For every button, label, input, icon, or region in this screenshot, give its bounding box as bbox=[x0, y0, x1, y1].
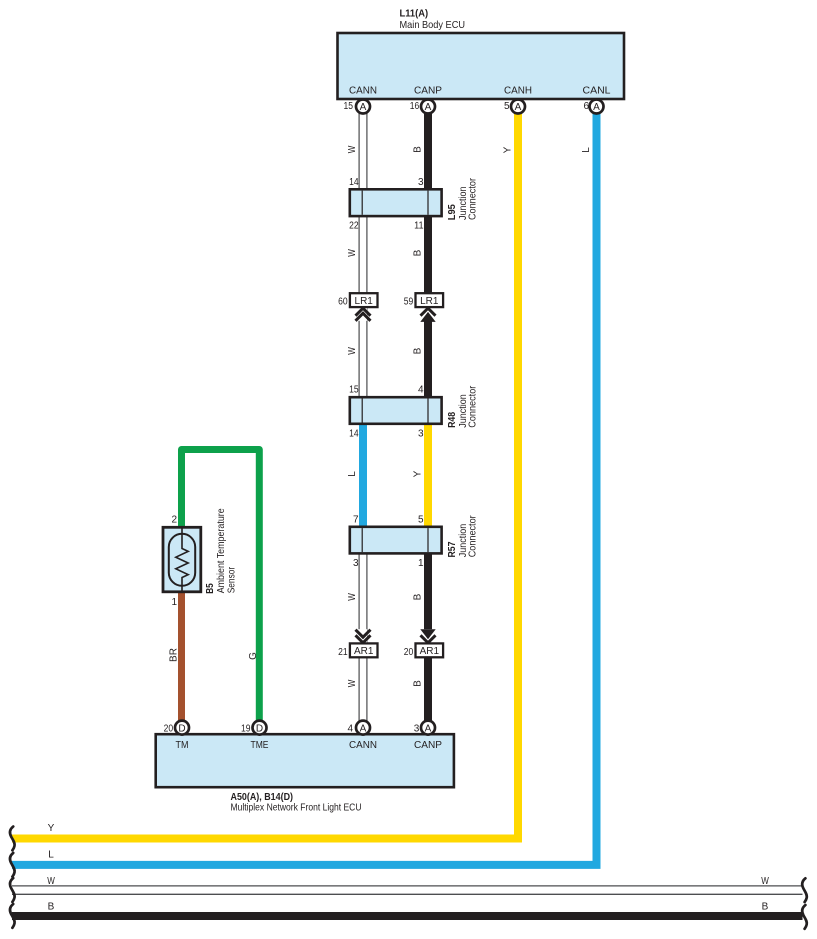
svg-text:Y: Y bbox=[413, 470, 424, 477]
svg-text:W: W bbox=[347, 679, 358, 687]
svg-text:20: 20 bbox=[164, 723, 174, 734]
svg-text:60: 60 bbox=[338, 297, 348, 308]
svg-text:20: 20 bbox=[404, 647, 414, 658]
svg-text:21: 21 bbox=[338, 647, 348, 658]
svg-text:W: W bbox=[347, 249, 358, 257]
svg-text:A: A bbox=[425, 102, 432, 113]
svg-text:L: L bbox=[347, 471, 358, 477]
svg-text:AR1: AR1 bbox=[420, 646, 440, 657]
svg-text:1: 1 bbox=[171, 597, 177, 608]
svg-text:A: A bbox=[360, 102, 367, 113]
svg-text:Connector: Connector bbox=[467, 515, 479, 557]
svg-text:A: A bbox=[515, 102, 522, 113]
svg-text:4: 4 bbox=[347, 723, 353, 734]
svg-text:3: 3 bbox=[418, 177, 424, 188]
svg-text:Y: Y bbox=[503, 146, 514, 153]
svg-text:3: 3 bbox=[353, 558, 359, 569]
svg-text:15: 15 bbox=[344, 101, 354, 112]
svg-text:4: 4 bbox=[418, 385, 424, 396]
svg-text:B: B bbox=[413, 146, 424, 153]
svg-text:14: 14 bbox=[349, 428, 359, 439]
svg-text:W: W bbox=[347, 347, 358, 355]
svg-text:2: 2 bbox=[171, 515, 177, 526]
svg-text:W: W bbox=[347, 593, 358, 601]
svg-text:3: 3 bbox=[418, 428, 424, 439]
svg-text:LR1: LR1 bbox=[355, 296, 374, 307]
svg-text:CANN: CANN bbox=[349, 739, 377, 751]
svg-text:LR1: LR1 bbox=[420, 296, 439, 307]
svg-text:L11(A): L11(A) bbox=[400, 8, 429, 20]
svg-text:Main Body ECU: Main Body ECU bbox=[400, 19, 466, 31]
svg-text:7: 7 bbox=[353, 514, 359, 525]
svg-text:B: B bbox=[762, 902, 769, 913]
svg-text:Multiplex Network Front Light: Multiplex Network Front Light ECU bbox=[231, 801, 362, 813]
svg-text:Connector: Connector bbox=[467, 178, 479, 220]
svg-text:Y: Y bbox=[48, 823, 55, 834]
svg-text:59: 59 bbox=[404, 297, 414, 308]
svg-text:TME: TME bbox=[251, 739, 269, 751]
svg-text:TM: TM bbox=[176, 739, 189, 751]
svg-text:D: D bbox=[178, 723, 185, 734]
svg-text:W: W bbox=[761, 876, 769, 887]
svg-text:CANP: CANP bbox=[414, 739, 442, 751]
svg-text:14: 14 bbox=[349, 177, 359, 188]
svg-text:1: 1 bbox=[418, 558, 424, 569]
svg-text:3: 3 bbox=[414, 723, 420, 734]
svg-text:5: 5 bbox=[418, 514, 424, 525]
svg-text:5: 5 bbox=[504, 101, 510, 112]
svg-text:Sensor: Sensor bbox=[225, 566, 237, 593]
svg-text:L: L bbox=[48, 849, 54, 860]
svg-text:CANH: CANH bbox=[504, 85, 532, 97]
svg-text:B: B bbox=[413, 347, 424, 354]
svg-text:BR: BR bbox=[168, 648, 179, 662]
svg-text:6: 6 bbox=[583, 101, 589, 112]
svg-text:B: B bbox=[48, 902, 55, 913]
svg-text:CANL: CANL bbox=[583, 85, 611, 97]
svg-text:15: 15 bbox=[349, 385, 359, 396]
svg-text:A: A bbox=[425, 723, 432, 734]
svg-text:B: B bbox=[413, 680, 424, 687]
svg-text:W: W bbox=[347, 145, 358, 153]
svg-text:16: 16 bbox=[410, 101, 420, 112]
svg-text:Connector: Connector bbox=[467, 385, 479, 427]
svg-text:A: A bbox=[360, 723, 367, 734]
svg-text:B: B bbox=[413, 593, 424, 600]
svg-text:CANN: CANN bbox=[349, 85, 377, 97]
svg-text:L: L bbox=[581, 147, 592, 153]
svg-text:W: W bbox=[47, 876, 55, 887]
svg-text:AR1: AR1 bbox=[354, 646, 374, 657]
svg-text:D: D bbox=[256, 723, 263, 734]
svg-text:A: A bbox=[593, 102, 600, 113]
svg-text:22: 22 bbox=[349, 221, 359, 232]
svg-text:19: 19 bbox=[241, 723, 251, 734]
svg-text:G: G bbox=[248, 652, 259, 660]
svg-text:CANP: CANP bbox=[414, 85, 442, 97]
svg-text:11: 11 bbox=[414, 221, 424, 232]
svg-text:B: B bbox=[413, 249, 424, 256]
